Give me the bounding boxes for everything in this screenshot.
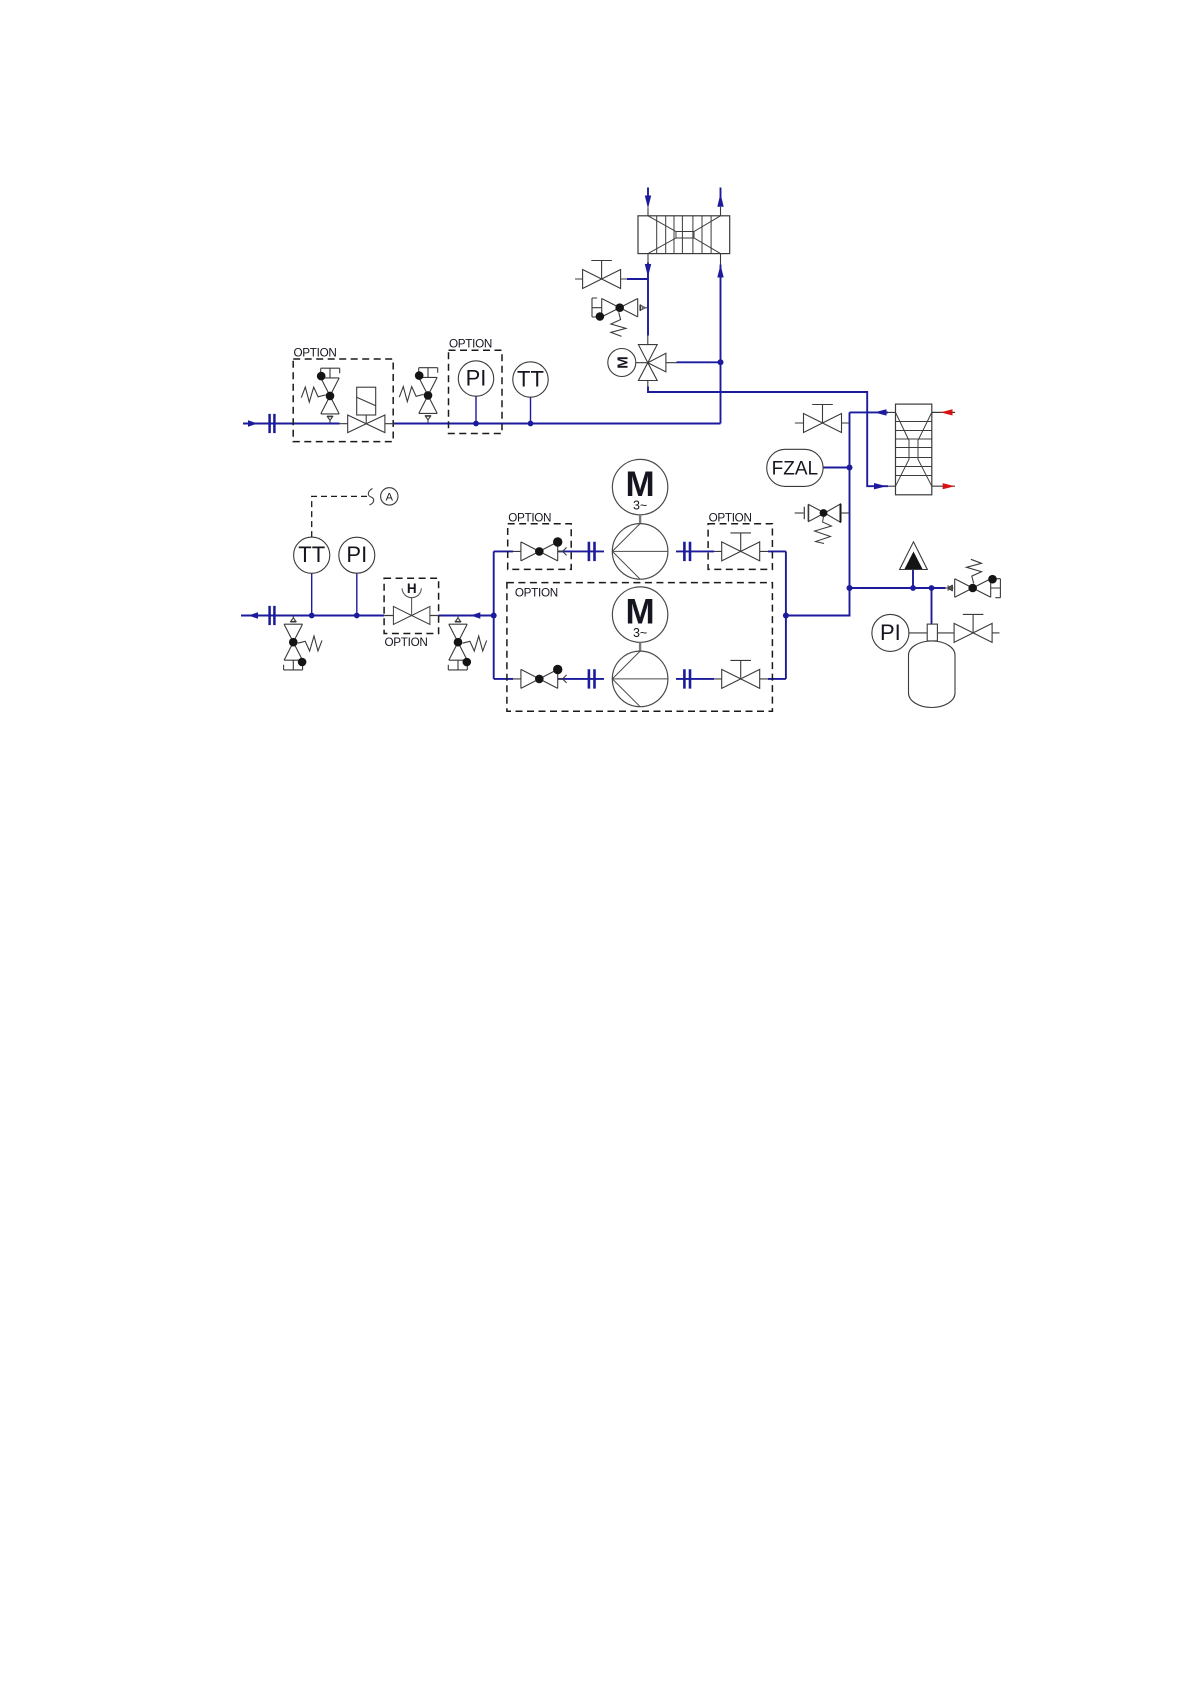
flex connector pump2 suction [589,669,595,688]
wire pump manifold right riser [785,551,787,679]
drain safety valve lower line left [284,615,322,670]
svg-text:PI: PI [346,542,367,567]
flange outlet lower line [270,606,275,625]
flow arrow up out of HX1 right top [717,194,723,207]
svg-text:FZAL: FZAL [772,459,818,480]
wire FZAL to riser [824,467,850,469]
control valve with actuator [340,387,395,432]
wire HX1 top right outlet [720,188,722,199]
svg-text:H: H [407,581,417,596]
wire pump1 suction segments [494,550,786,552]
OPTION box 2 (PI gauge) [449,338,503,434]
safety valve branch arrow [948,585,955,591]
overflow valve at FZAL riser [795,504,850,544]
svg-text:A: A [386,491,394,503]
instrument PI2 pressure gauge [339,537,375,573]
signal break squiggle [368,489,373,506]
check valve pump2 [513,665,567,689]
wire hand valve to riser [627,278,648,280]
svg-text:PI: PI [880,620,901,645]
wire junction to 3-way valve right port [677,361,721,363]
3-way motor valve [608,336,677,387]
wire pump manifold left riser [493,551,495,679]
junction node PI1 [473,421,479,427]
wire PI2 instrument stem [356,573,358,615]
pump P1 [612,524,668,580]
OPTION box pump1 discharge valve [708,512,772,570]
wire upper supply line right segment [394,423,721,425]
wire HX1 bottom left to 3-way valve top [647,263,649,336]
pump P2 [612,651,668,707]
expansion tank neck [909,624,954,641]
junction node FZAL [847,465,853,471]
node A connection circle [381,488,398,505]
wire 3-way valve bottom to HX2 bottom left [648,387,888,487]
expansion tank vessel [909,641,956,707]
svg-text:OPTION: OPTION [385,636,428,649]
flow arrow up into HX1 right [717,265,723,278]
flange inlet upper line [270,414,275,433]
hot inlet arrow red [941,409,953,415]
junction node riser/3-way [718,359,724,365]
flow arrow into HX2 bottom left [874,483,887,489]
flex connector pump1 suction [589,542,595,561]
instrument FZAL frost alarm [767,449,823,486]
flow arrow out of HX2 top left [874,409,887,415]
hand valve H in OPTION box [384,578,439,649]
safety relief valve at HX1 riser [592,298,647,336]
flow arrow outlet lower line [248,612,258,618]
svg-text:M: M [614,356,631,369]
wire air vent stem [912,570,914,588]
junction node manifold right [783,613,789,619]
safety relief valve right branch [945,559,1000,597]
flow arrow inlet upper line [248,420,258,426]
wire PI1 instrument stem [475,396,477,423]
safety relief valve in OPTION box 1 [301,368,339,423]
wire lower line H-valve to pump manifold [439,615,494,617]
svg-text:OPTION: OPTION [515,587,558,600]
wire TT2 instrument stem [311,573,313,615]
wire right riser down to pump return [786,412,850,615]
instrument TT2 temperature transmitter [294,537,330,573]
check valve pump1 [513,537,567,561]
hand valve at HX1 bypass [575,261,627,289]
wire TT1 instrument stem [530,397,532,423]
wire HX2 top left to right riser [850,411,889,413]
junction node air vent [910,585,916,591]
shutoff valve pump2 discharge [714,660,768,688]
svg-text:OPTION: OPTION [449,338,492,351]
flow arrow lower line toward outlet [471,612,481,618]
junction node safety branch [847,585,853,591]
junction node PI2 [354,613,360,619]
flex connector pump1 discharge [684,542,690,561]
wire riser to 3-way junction [720,362,722,423]
svg-text:PI: PI [466,366,487,391]
flow arrow down out of HX1 left [645,264,651,277]
flex connector pump2 discharge [684,669,690,688]
svg-text:TT: TT [298,542,325,567]
motor M2 [612,587,667,651]
OPTION box standby pump unit [507,583,773,712]
hot outlet arrow red [943,483,955,489]
safety relief valve 2 on upper line [399,368,437,423]
drain safety valve lower line right [448,615,486,670]
svg-text:OPTION: OPTION [508,512,551,525]
svg-text:TT: TT [517,367,544,392]
wire riser junction to HX1 right bottom [720,265,722,363]
OPTION box pump1 check valve [508,512,572,570]
svg-text:OPTION: OPTION [709,512,752,525]
junction node TT1 [528,421,534,427]
flow arrow down into HX1 left top [645,196,651,209]
instrument TT1 temperature transmitter [513,362,548,397]
air vent [900,542,928,570]
heat exchanger HX1 (air cooler, top) [638,207,730,265]
motor M1 [612,459,667,523]
instrument PI1 pressure gauge [458,361,493,396]
wire expansion tank stem [931,588,933,625]
signal line TT2 to A [312,496,368,537]
wire HX1 top left inlet [647,188,649,197]
wire pump2 suction segments [494,678,786,680]
heat exchanger HX2 (plate, right) [888,404,955,495]
wire lower outlet line left segment [241,615,384,617]
junction node TT2 [309,613,315,619]
fill valve above FZAL [795,405,850,433]
junction node expansion tank [929,585,935,591]
wire branch to safety valve group [850,587,946,589]
OPTION box 1 (inlet valve group) [293,347,393,442]
svg-text:OPTION: OPTION [294,347,337,360]
wire upper supply line left segment [243,423,340,425]
junction node manifold left [491,613,497,619]
instrument PI3 tank pressure gauge [872,614,909,651]
shutoff valve pump1 discharge [714,533,768,561]
tank isolation valve [954,614,999,642]
